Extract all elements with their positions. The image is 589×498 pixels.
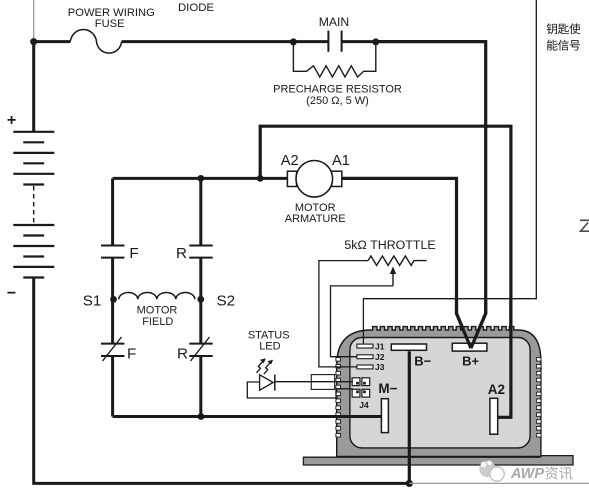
svg-text:A2: A2 (488, 382, 505, 397)
svg-text:A2: A2 (281, 153, 299, 169)
svg-text:FIELD: FIELD (142, 316, 173, 328)
motor armature M1 terminals (287, 171, 296, 186)
svg-text:R: R (177, 346, 188, 363)
wire: top rail to B+ drop, down and into B+ terminal (376, 42, 486, 349)
controller heat-sink body (dark gray) (337, 327, 541, 457)
svg-text:FUSE: FUSE (95, 18, 125, 30)
wire: left column (S1 branch) with contact gaps (111, 178, 114, 416)
wire: LED cathode to J4 upper pin (275, 381, 353, 383)
potentiometer 5k THROTTLE (zigzag) (368, 256, 427, 265)
node: junction dot above R contact (197, 175, 204, 182)
motor armature M1 body (296, 161, 333, 198)
node: precharge left junction dot (290, 38, 297, 45)
watermark logo (paw bubbles) (479, 461, 495, 477)
wire: right column (S2 branch) with contact gaps (199, 178, 202, 416)
wire: fuse to MAIN contactor (122, 40, 329, 43)
pin J2 (357, 355, 373, 359)
resistor R1 precharge (zigzag) bypassing MAIN (293, 42, 375, 77)
svg-text:MOTOR: MOTOR (137, 305, 178, 317)
terminal M- bar (381, 399, 388, 433)
connector housing at controller edge (LED plug) (311, 375, 334, 390)
wire: throttle wiper to J2 (331, 286, 394, 357)
node: precharge right junction dot (372, 38, 379, 45)
svg-text:PRECHARGE RESISTOR: PRECHARGE RESISTOR (273, 84, 402, 96)
contactor F (normally closed, slashed) (101, 344, 124, 356)
node: B- / battery- junction dot (406, 480, 413, 487)
inductor MOTOR FIELD winding (119, 292, 195, 299)
svg-text:F: F (127, 346, 136, 363)
pin J1 (357, 344, 373, 348)
wire: battery negative lead down and along bottom to B- node (34, 278, 410, 484)
svg-text:J2: J2 (375, 352, 385, 362)
LED D1 status (diode triangle) (260, 375, 274, 390)
svg-text:F: F (129, 245, 138, 262)
pin J3 (357, 365, 373, 369)
contactor R (normally closed, slashed) (189, 344, 212, 356)
wire: B- terminal down to battery negative rail (408, 351, 411, 483)
contactor MAIN (normally-open contact) (327, 31, 329, 52)
node S1 dot (110, 296, 117, 303)
controller inner panel (light gray) (350, 338, 530, 448)
wire: A2 rail up-over to controller A2 terminal (260, 126, 511, 417)
contactor F (forward, normally open) (101, 246, 124, 258)
svg-text:(250 Ω, 5 W): (250 Ω, 5 W) (306, 95, 369, 107)
wire: MAIN contact to right junction (342, 40, 376, 43)
fuse F1 POWER WIRING FUSE (S-curve symbol) (70, 29, 121, 53)
svg-text:LED: LED (259, 340, 280, 352)
wire: battery positive lead going off-page (thin gray) (33, 0, 35, 41)
wire: throttle high side to J3 (319, 261, 368, 367)
battery B1 (multi-cell with dashed middle) (32, 42, 35, 132)
wire: A1 drop into B+ (over body) (457, 300, 471, 348)
LED emission arrows (257, 362, 263, 373)
svg-text:B−: B− (414, 354, 431, 369)
wire: A2 rail drop into controller A2 terminal (over body) (498, 300, 511, 417)
terminal A2 bar (490, 398, 498, 434)
controller side cooling fins (notches) (336, 358, 341, 362)
svg-text:J3: J3 (375, 362, 385, 372)
wire: top rail from battery + to fuse (34, 40, 71, 43)
svg-text:+: + (7, 112, 16, 129)
label (chinese): key enable signal line 2 (547, 40, 558, 51)
connector J4 (2x2 pin block) (352, 378, 360, 386)
node S2 dot (197, 296, 204, 303)
svg-text:MAIN: MAIN (319, 15, 349, 29)
faint page rule continuing from B- node (409, 482, 589, 484)
svg-text:S2: S2 (217, 292, 236, 309)
node: junction dot at armature A2 column (257, 175, 264, 182)
node: battery + junction dot (30, 38, 37, 45)
contactor R (reverse, normally open) (189, 246, 212, 258)
svg-text:DIODE: DIODE (178, 2, 214, 14)
clipped character at right edge (580, 220, 589, 231)
svg-text:R: R (176, 245, 187, 262)
svg-text:M−: M− (378, 381, 397, 396)
throttle wiper arrow (392, 272, 394, 286)
wire: key-switch enable signal down to J1 (363, 0, 536, 344)
wire: armature A1 to B+ drop (342, 178, 471, 348)
terminal B- bar (391, 344, 426, 350)
wire: bottom rail from field columns to M- terminal (113, 415, 382, 418)
controller mounting base flange (303, 456, 573, 465)
svg-text:ARMATURE: ARMATURE (285, 213, 346, 225)
svg-text:5kΩ THROTTLE: 5kΩ THROTTLE (344, 238, 435, 252)
svg-text:AWP: AWP (510, 466, 544, 482)
svg-text:−: − (7, 285, 16, 302)
svg-text:A1: A1 (332, 153, 350, 169)
wire: field top rail to armature A2 (113, 177, 288, 180)
svg-text:B+: B+ (462, 353, 479, 368)
node: bottom rail junction dot (198, 413, 205, 420)
svg-text:POWER WIRING: POWER WIRING (68, 7, 155, 19)
wire: LED anode return loop to J4 lower pin (247, 382, 353, 398)
terminal B+ bar (452, 343, 487, 351)
label (chinese): key enable signal line 1 (547, 23, 557, 34)
wire: bottom rail into M- terminal (over body) (330, 415, 381, 418)
wire: MAIN rail drop into B+ (over body) (471, 300, 486, 348)
svg-text:S1: S1 (83, 292, 102, 309)
svg-text:J1: J1 (375, 341, 385, 351)
svg-text:J4: J4 (359, 400, 369, 410)
